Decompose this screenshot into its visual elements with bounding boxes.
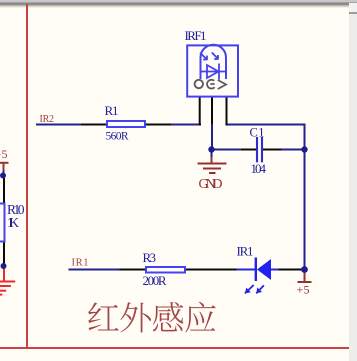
svg-text:+5: +5	[297, 282, 310, 296]
svg-text:R1: R1	[105, 103, 119, 118]
svg-text:GND: GND	[199, 177, 223, 192]
svg-text:560R: 560R	[106, 131, 129, 143]
svg-text:IRF1: IRF1	[185, 28, 207, 43]
svg-text:1K: 1K	[7, 215, 19, 230]
svg-text:+5: +5	[0, 147, 8, 161]
svg-text:IR1: IR1	[72, 257, 89, 268]
svg-text:IR1: IR1	[237, 244, 254, 259]
svg-text:IR2: IR2	[40, 114, 55, 125]
svg-text:200R: 200R	[143, 273, 167, 288]
svg-text:104: 104	[251, 161, 267, 176]
svg-text:C1: C1	[250, 125, 265, 139]
svg-text:R3: R3	[143, 250, 157, 265]
